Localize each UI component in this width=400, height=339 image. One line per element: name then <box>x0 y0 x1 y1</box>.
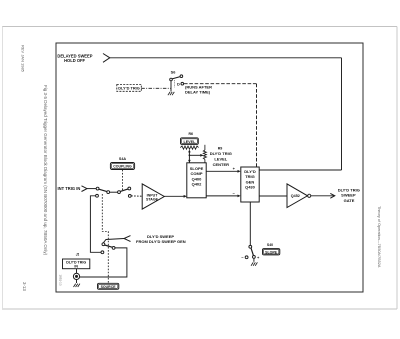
wire dashed runs-after-delay vertical <box>256 84 258 167</box>
svg-text:Theory of Operation—7B50A/7B52: Theory of Operation—7B50A/7B52A <box>377 206 381 268</box>
switch S6 <box>170 75 183 92</box>
page edge bottom <box>2 308 397 310</box>
svg-text:3-13: 3-13 <box>22 282 27 291</box>
svg-text:S4A: S4A <box>119 157 127 161</box>
svg-text:−: − <box>233 191 236 196</box>
page edge left <box>2 27 4 310</box>
svg-text:GATE: GATE <box>344 198 355 203</box>
svg-text:STAGE: STAGE <box>146 198 159 202</box>
potentiometer R6 wiper <box>188 151 190 163</box>
svg-text:LEVEL: LEVEL <box>214 157 227 162</box>
wire to R9 <box>189 154 200 156</box>
svg-text:DELAY TIME): DELAY TIME) <box>185 89 211 94</box>
wire switch to jack line <box>80 248 127 277</box>
node DELAYED SWEEP HOLD OFF input arrow <box>103 54 110 63</box>
wire hold off horizontal <box>110 57 342 59</box>
svg-text:CENTER: CENTER <box>213 162 230 167</box>
block U2 dlyd trig gen <box>241 167 259 202</box>
amplifier Q452 <box>287 184 308 208</box>
diagram frame <box>56 43 363 292</box>
page edge top <box>2 26 397 28</box>
switch S4B sweep section <box>102 243 115 250</box>
svg-text:+: + <box>257 255 260 260</box>
svg-text:S6: S6 <box>171 70 177 75</box>
wire int trig to switch <box>87 188 96 190</box>
svg-text:COUPLING: COUPLING <box>113 165 132 169</box>
svg-text:S40: S40 <box>267 243 273 247</box>
node DLY'D TRIG dashed label box <box>117 85 142 92</box>
wire slope comp to trig gen plus <box>206 170 238 172</box>
svg-text:FROM DLY'D SWEEP GEN: FROM DLY'D SWEEP GEN <box>136 239 186 244</box>
wire ext contact to jack loop <box>90 196 101 253</box>
wire amp out <box>311 195 334 197</box>
svg-text:J1: J1 <box>76 253 80 257</box>
svg-text:SLOPE: SLOPE <box>265 251 278 255</box>
svg-text:Q402: Q402 <box>192 182 203 187</box>
svg-text:R9: R9 <box>218 147 223 151</box>
wire dash-dot DLY'D TRIG to S6 <box>141 87 170 89</box>
svg-text:SOURCE: SOURCE <box>101 285 117 289</box>
wire dlyd sweep to switch <box>103 239 124 243</box>
wire dashed runs-after-delay horizontal <box>184 83 257 85</box>
svg-text:LEVEL: LEVEL <box>183 140 196 144</box>
linkage coupling dashed <box>122 170 124 191</box>
ground below J1 <box>76 280 78 284</box>
node junction level wiper <box>189 154 191 156</box>
svg-text:HOLD OFF: HOLD OFF <box>64 58 85 63</box>
svg-text:DLY'D TRIG: DLY'D TRIG <box>118 86 140 91</box>
node DLY'D TRIG IN box <box>63 259 90 269</box>
svg-text:D: D <box>177 82 180 87</box>
control SOURCE box <box>98 283 119 289</box>
linkage source dashed <box>102 194 108 283</box>
wire input stage to slope comp <box>164 195 184 197</box>
svg-text:Fig 3-5 Delayed Trigger Gener: Fig 3-5 Delayed Trigger Generator Block … <box>43 85 48 256</box>
wire slope comp to trig gen minus <box>206 195 238 197</box>
wire hold off to U2 <box>259 169 341 171</box>
svg-text:IN: IN <box>74 265 78 269</box>
svg-text:Q430: Q430 <box>245 185 256 190</box>
amplifier input stage <box>142 184 164 209</box>
ground below S40 <box>253 258 255 262</box>
svg-text:−: − <box>241 255 244 260</box>
page edge right <box>396 27 398 310</box>
svg-text:INT TRIG IN: INT TRIG IN <box>58 186 81 191</box>
svg-text:R6: R6 <box>188 132 193 136</box>
switch S4B source section <box>96 187 132 197</box>
potentiometer R9 body <box>204 145 206 150</box>
wire hold off vertical <box>341 58 343 170</box>
ground below S6 <box>168 92 174 95</box>
block U1 slope comp <box>187 163 206 198</box>
svg-text:+: + <box>233 166 236 171</box>
switch S40 slope <box>245 245 255 258</box>
control SLOPE box <box>263 249 280 255</box>
svg-text:1851-13: 1851-13 <box>59 275 63 286</box>
control COUPLING box <box>110 163 134 170</box>
wire dashed to input stage <box>131 195 142 197</box>
connector J1 bnc <box>76 269 78 274</box>
svg-text:REV JAN 1985: REV JAN 1985 <box>21 45 26 73</box>
wire trig gen to amp <box>259 195 287 197</box>
wire trig gen to slope switch <box>249 202 251 245</box>
svg-text:Q452: Q452 <box>291 194 300 198</box>
svg-text:DLY'D TRIG: DLY'D TRIG <box>210 151 232 156</box>
potentiometer R6 body <box>180 146 198 149</box>
node DLY'D SWEEP arrow <box>124 236 131 242</box>
